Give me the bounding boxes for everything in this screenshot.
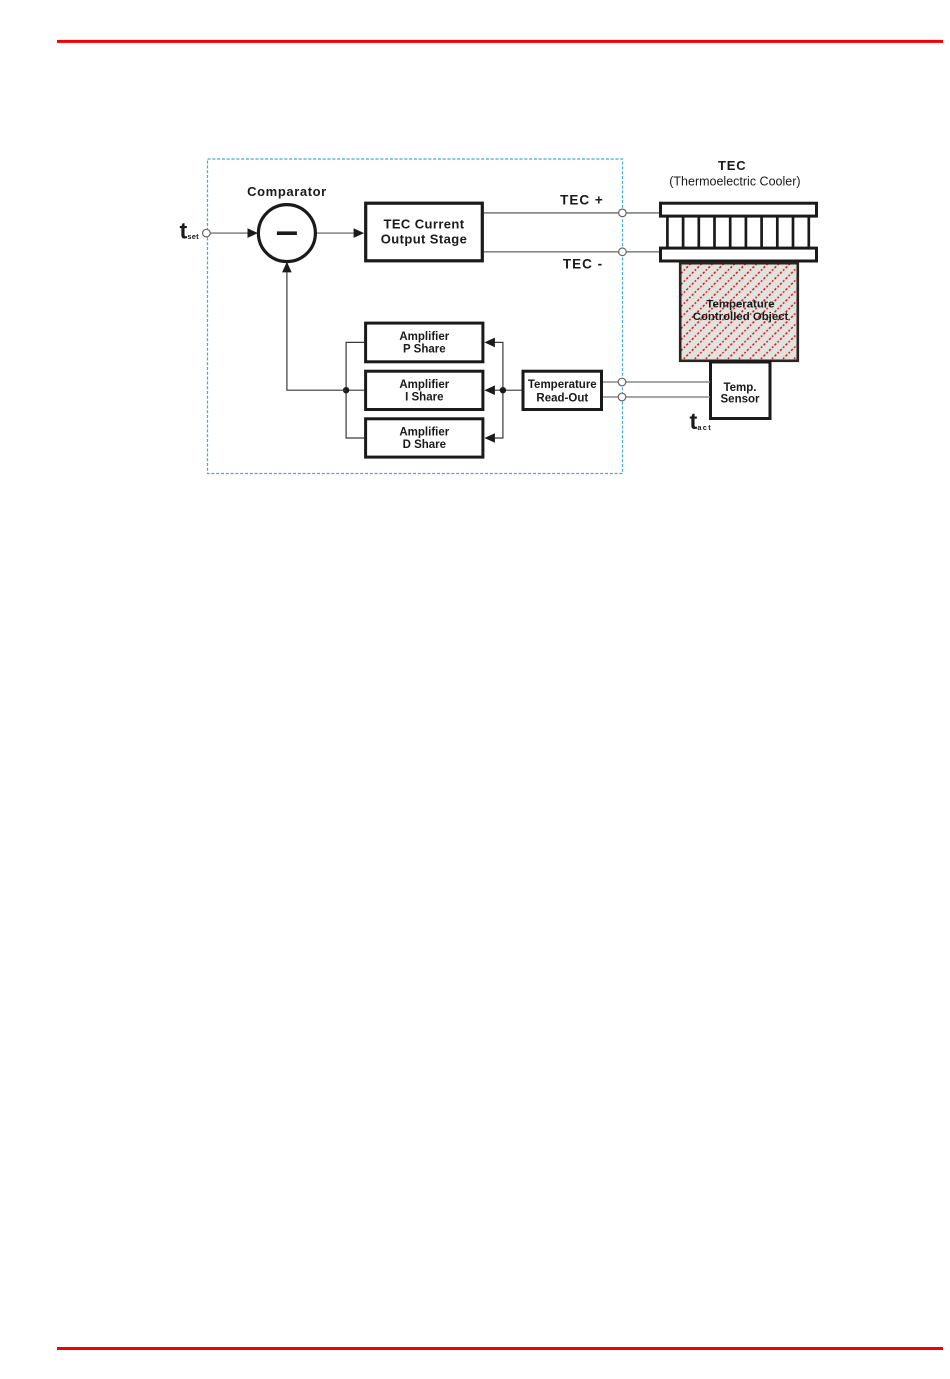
wire bus to I share [346, 389, 364, 391]
block TEC Current Output Stage [366, 203, 483, 261]
TEC bottom plate [661, 248, 817, 261]
svg-text:TEC -: TEC - [563, 257, 603, 272]
wire t_set to comparator [206, 232, 249, 234]
svg-text:Temp.: Temp. [723, 382, 756, 394]
arrow into D share [484, 433, 495, 443]
junction right bus [500, 387, 506, 393]
controller boundary (dashed box) [208, 159, 623, 474]
wire TEC + [484, 212, 660, 214]
wire sensor to read-out (lower) [603, 396, 710, 398]
wire TEC - [484, 251, 660, 253]
terminal TEC - [619, 248, 627, 256]
svg-text:P Share: P Share [403, 344, 446, 356]
svg-text:TEC +: TEC + [560, 193, 604, 208]
svg-text:Controlled Object: Controlled Object [693, 311, 789, 323]
comparator U1 summing junction [258, 205, 315, 262]
svg-text:TEC Current: TEC Current [384, 217, 465, 232]
wire amplifier output bus (left vertical) [346, 342, 364, 438]
svg-text:Sensor: Sensor [721, 393, 761, 405]
block Temperature Controlled Object (hatched) [680, 263, 798, 361]
svg-text:TEC: TEC [718, 158, 746, 173]
svg-text:Read-Out: Read-Out [536, 392, 588, 404]
svg-text:tact: tact [690, 408, 713, 434]
terminal sensor upper [618, 378, 626, 386]
block Amplifier I Share [366, 371, 483, 409]
svg-text:Amplifier: Amplifier [399, 427, 449, 439]
wire read-out junction to I share [493, 389, 522, 391]
svg-text:Comparator: Comparator [247, 184, 327, 199]
header rule [57, 40, 943, 43]
terminal sensor lower [618, 393, 626, 401]
svg-text:Amplifier: Amplifier [399, 379, 449, 391]
block Temp. Sensor [711, 362, 771, 419]
TEC top plate [661, 203, 817, 216]
svg-text:Amplifier: Amplifier [399, 331, 449, 343]
terminal TEC + [619, 209, 627, 217]
svg-text:Temperature: Temperature [528, 379, 597, 391]
block Temperature Read-Out [523, 371, 602, 409]
svg-text:tset: tset [180, 218, 200, 244]
wire comparator to TEC current output stage [317, 232, 356, 234]
block Amplifier D Share [366, 419, 483, 457]
wire feedback to comparator [287, 270, 346, 390]
arrow into P share [484, 338, 495, 348]
block Amplifier P Share [366, 323, 483, 362]
svg-text:Output Stage: Output Stage [381, 232, 467, 247]
wire read-out to amplifier inputs (right vertical) [493, 342, 503, 438]
junction left bus [343, 387, 349, 393]
svg-text:Temperature: Temperature [706, 299, 774, 311]
svg-text:(Thermoelectric Cooler): (Thermoelectric Cooler) [669, 175, 800, 189]
wire sensor to read-out (upper) [603, 381, 710, 383]
svg-text:D Share: D Share [403, 439, 446, 451]
terminal t_set input [203, 229, 211, 237]
svg-text:I Share: I Share [405, 391, 443, 403]
TEC pillars [667, 216, 808, 247]
arrow into I share [484, 385, 495, 395]
footer rule [57, 1347, 943, 1350]
